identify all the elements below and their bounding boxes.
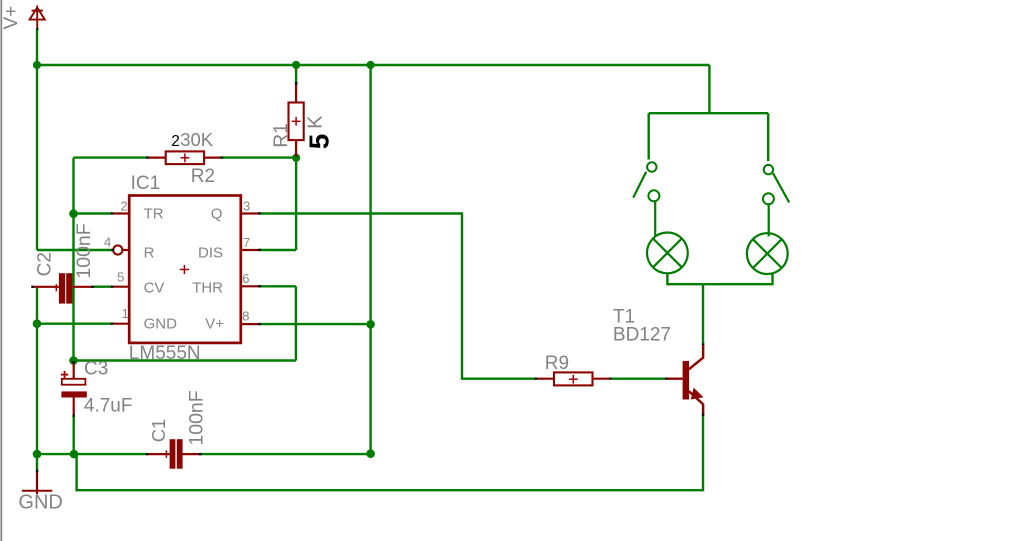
resistor R9 — [535, 372, 612, 385]
node pin1 left — [33, 319, 42, 328]
capacitor C1 — [146, 439, 202, 469]
svg-text:GND: GND — [18, 492, 62, 514]
svg-text:4: 4 — [104, 235, 111, 250]
wire right switch leg — [767, 113, 769, 161]
svg-text:V+: V+ — [205, 315, 224, 332]
svg-text:8: 8 — [242, 308, 249, 323]
wire THR bottom run — [74, 359, 296, 361]
svg-text:R1: R1 — [271, 123, 292, 147]
svg-text:GND: GND — [144, 315, 178, 332]
wire THR riser down — [295, 286, 297, 360]
node junction top-left — [33, 61, 41, 69]
switch S1 (left) — [633, 162, 659, 237]
wire lamp feed right — [709, 112, 768, 114]
svg-text:7: 7 — [243, 235, 250, 250]
wire pin8 riser full — [369, 65, 371, 454]
svg-text:C3: C3 — [84, 359, 108, 380]
wire R1 top — [295, 65, 297, 84]
svg-text:C1: C1 — [148, 419, 169, 443]
svg-text:C2: C2 — [35, 252, 56, 276]
wire left ground vertical — [36, 288, 38, 455]
svg-text:R2: R2 — [191, 166, 215, 187]
wire pin4 horizontal — [37, 249, 113, 251]
pin 7 DIS stub — [241, 249, 260, 251]
lamp LA2 (right) — [747, 233, 788, 274]
pin tick GND — [36, 470, 38, 472]
op-amp / IC1 LM555N body — [129, 196, 241, 343]
svg-text:2: 2 — [120, 198, 127, 213]
wire GND pin1 — [37, 323, 112, 325]
svg-text:K: K — [304, 115, 326, 129]
svg-text:IC1: IC1 — [131, 173, 161, 194]
wire R2 right to node — [222, 156, 296, 158]
node pin8 riser bottom — [366, 449, 375, 458]
svg-text:DIS: DIS — [198, 245, 223, 262]
pin 8 V+ stub — [241, 323, 260, 325]
wire V+ pin8 — [260, 323, 371, 325]
pin 6 THR stub — [241, 285, 260, 287]
node THR / C3 — [69, 356, 78, 365]
svg-text:LM555N: LM555N — [129, 343, 201, 364]
svg-text:5: 5 — [304, 134, 335, 150]
svg-text:5: 5 — [117, 269, 124, 284]
wire CV to C2 — [93, 286, 112, 288]
pin 2 TR stub — [112, 212, 129, 214]
wire R2 left riser — [72, 158, 74, 361]
svg-text:100nF: 100nF — [73, 223, 95, 278]
svg-text:2: 2 — [171, 133, 180, 150]
wire C3 bottom green — [72, 417, 74, 455]
pin 1 GND stub — [112, 323, 129, 325]
wire DIS horizontal — [260, 249, 297, 251]
wire DIS riser — [295, 158, 297, 250]
transistor T1 — [665, 343, 705, 416]
wire left switch leg — [648, 113, 650, 159]
origin cross IC1 — [180, 269, 189, 271]
wire left lamp bottom — [667, 273, 703, 284]
wire C1 right to riser — [201, 453, 371, 455]
wire top rail — [37, 64, 710, 66]
wire Q output — [260, 214, 537, 379]
svg-text:1: 1 — [122, 306, 129, 321]
frame left edge — [0, 0, 2, 541]
ground symbol GND — [22, 471, 52, 494]
svg-text:THR: THR — [192, 279, 223, 296]
node pin8 — [366, 320, 375, 329]
node pin8 riser top — [367, 61, 375, 69]
wire lamp feed drop — [649, 65, 710, 113]
svg-text:3: 3 — [243, 198, 250, 213]
node C3 bottom rail — [70, 450, 79, 459]
supply symbol V+ — [30, 6, 45, 30]
pin 5 CV stub — [112, 286, 129, 288]
node GND rail left — [33, 450, 42, 459]
wire ground row — [37, 453, 147, 455]
svg-text:V+: V+ — [1, 6, 22, 30]
wire R9 to base — [611, 378, 665, 380]
svg-text:TR: TR — [144, 206, 164, 223]
wire collector up to lamps — [702, 284, 704, 343]
svg-text:30K: 30K — [180, 129, 214, 150]
svg-text:R: R — [144, 245, 155, 262]
svg-text:BD127: BD127 — [613, 325, 671, 346]
wire GND stub — [36, 454, 38, 470]
resistor R2 — [146, 151, 223, 164]
lamp LA1 (left) — [647, 233, 688, 274]
node TR — [69, 209, 78, 218]
pin 3 Q stub — [241, 212, 260, 214]
wire bottom rail drop — [77, 415, 703, 490]
svg-text:CV: CV — [144, 279, 165, 296]
capacitor C2 — [31, 273, 94, 303]
wire V+ drop to pin4 row — [36, 30, 38, 251]
svg-text:Q: Q — [211, 206, 223, 223]
node R1 top — [292, 61, 300, 69]
capacitor C3 (polarized) — [61, 361, 87, 417]
svg-text:6: 6 — [242, 271, 249, 286]
pin tick V+ — [36, 28, 38, 30]
wire THR horizontal — [260, 285, 296, 287]
svg-text:R9: R9 — [545, 353, 569, 374]
svg-text:100nF: 100nF — [185, 390, 207, 445]
wire R2 left — [74, 156, 149, 158]
resistor R1 — [289, 82, 304, 157]
wire TR pin2 — [74, 212, 113, 214]
wire right lamp bottom — [703, 273, 773, 285]
switch S2 (right) — [763, 165, 789, 237]
node R1 bottom / R2 / DIS — [292, 154, 300, 162]
pin 4 R bubble — [113, 245, 122, 254]
svg-text:4.7uF: 4.7uF — [84, 396, 133, 417]
